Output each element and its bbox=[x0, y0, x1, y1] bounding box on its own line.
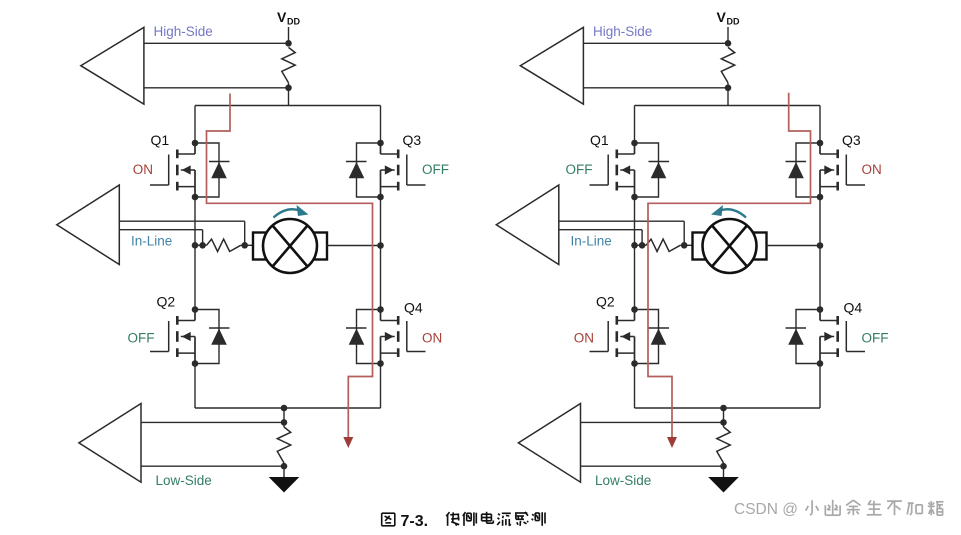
label High-Side (left) bbox=[154, 24, 213, 39]
ground (right) bbox=[708, 477, 739, 493]
svg-text:In-Line: In-Line bbox=[571, 234, 612, 249]
rotation direction arrow for M (left) bbox=[274, 205, 309, 218]
wire bottom rail (right) bbox=[635, 407, 821, 409]
ground (left) bbox=[269, 477, 300, 493]
node Q2 (right) source bbox=[631, 360, 638, 367]
node Q2 (left) drain bbox=[192, 306, 199, 313]
node shunt sense left (left) bbox=[199, 242, 206, 249]
wire resistor to rail (left) bbox=[288, 83, 290, 106]
svg-text:High-Side: High-Side bbox=[154, 24, 213, 39]
node Q1 (right) drain bbox=[631, 140, 638, 147]
node Q3 (right) source bbox=[817, 194, 824, 201]
resistor R_highside (right) bbox=[721, 47, 734, 82]
transistor Q2 (left) (N-MOSFET with body diode) bbox=[150, 310, 230, 364]
node Q3 (left) source bbox=[377, 194, 384, 201]
wire shunt to motor (left) bbox=[241, 244, 253, 246]
label High-Side (right) bbox=[593, 24, 652, 39]
rotation direction arrow for M (right) bbox=[711, 205, 746, 218]
node sense bottom (left) bbox=[281, 463, 288, 470]
op-amp Low-Side (left) current-sense amplifier bbox=[79, 404, 141, 483]
svg-text:Q2: Q2 bbox=[157, 294, 176, 310]
wire top rail (right) bbox=[635, 105, 821, 107]
wire motor to right leg (left) bbox=[327, 245, 381, 247]
wire bottom rail (left) bbox=[195, 407, 381, 409]
label Q4 (left) bbox=[404, 300, 423, 316]
node sense bottom (right) bbox=[720, 463, 727, 470]
motor M (right) (DC motor symbol) bbox=[693, 219, 767, 273]
node bottom rail center (left) bbox=[281, 405, 288, 412]
transistor Q1 (right) (N-MOSFET with body diode) bbox=[590, 143, 670, 197]
svg-text:Q4: Q4 bbox=[404, 300, 423, 316]
wire current path (red) (right) bbox=[648, 93, 811, 448]
wire in-line amp top input (right) bbox=[559, 221, 684, 245]
node sense top (left) bbox=[281, 419, 288, 426]
label In-Line (right) bbox=[571, 234, 612, 249]
net V_DD label (right) bbox=[717, 9, 740, 27]
label Q1 (right) bbox=[590, 132, 609, 148]
wire top rail (left) bbox=[195, 105, 381, 107]
label Q1 state (left) bbox=[133, 162, 153, 177]
transistor Q4 (left) (N-MOSFET with body diode) bbox=[346, 310, 426, 364]
label Low-Side (right) bbox=[595, 473, 651, 488]
wire low-side amp bottom input (right) bbox=[581, 465, 724, 467]
transistor Q1 (left) (N-MOSFET with body diode) bbox=[150, 143, 230, 197]
wire rail to sense resistor (right) bbox=[723, 408, 725, 427]
label Q4 (right) bbox=[844, 300, 863, 316]
label Q4 state (left) bbox=[422, 331, 442, 346]
node V_DD bottom (right) bbox=[725, 85, 732, 92]
node V_DD top (right) bbox=[725, 40, 732, 47]
node Q2 (right) drain bbox=[631, 306, 638, 313]
label Q3 (left) bbox=[403, 132, 422, 148]
wire right leg (left) bbox=[380, 106, 382, 409]
node bottom rail center (right) bbox=[720, 405, 727, 412]
transistor Q3 (right) (N-MOSFET with body diode) bbox=[786, 143, 866, 197]
node Q1 (left) drain bbox=[192, 140, 199, 147]
op-amp In-Line (right) current-sense amplifier bbox=[496, 185, 559, 265]
node sense top (right) bbox=[720, 419, 727, 426]
transistor Q2 (right) (N-MOSFET with body diode) bbox=[590, 310, 670, 364]
svg-text:ON: ON bbox=[862, 162, 882, 177]
node Q4 (left) drain bbox=[377, 306, 384, 313]
wire in-line amp bottom input (right) bbox=[559, 230, 642, 246]
label In-Line (left) bbox=[131, 234, 172, 249]
svg-text:ON: ON bbox=[422, 331, 442, 346]
svg-text:ON: ON bbox=[133, 162, 153, 177]
wire low-side amp bottom input (left) bbox=[141, 465, 284, 467]
wire sense resistor to ground (right) bbox=[723, 463, 725, 478]
resistor R_lowside (right) bbox=[717, 427, 730, 463]
svg-text:V: V bbox=[717, 9, 727, 25]
op-amp High-Side (left) current-sense amplifier bbox=[81, 27, 144, 104]
wire low-side amp top input (left) bbox=[141, 421, 284, 423]
transistor Q4 (right) (N-MOSFET with body diode) bbox=[786, 310, 866, 364]
wire high-side amp top input (left) bbox=[144, 42, 289, 44]
svg-text:High-Side: High-Side bbox=[593, 24, 652, 39]
node Q3 (right) drain bbox=[817, 140, 824, 147]
wire current path (red) (left) bbox=[207, 94, 373, 449]
label Q2 state (right) bbox=[574, 331, 594, 346]
wire right leg (right) bbox=[819, 106, 821, 409]
svg-text:DD: DD bbox=[727, 17, 740, 27]
resistor R_shunt (left) bbox=[207, 239, 241, 251]
svg-text:Q4: Q4 bbox=[844, 300, 863, 316]
wire low-side amp top input (right) bbox=[581, 421, 724, 423]
node Q2 (left) source bbox=[192, 360, 199, 367]
svg-text:OFF: OFF bbox=[566, 162, 593, 177]
node shunt sense right (left) bbox=[241, 242, 248, 249]
node V_DD top (left) bbox=[285, 40, 292, 47]
svg-text:Q1: Q1 bbox=[590, 132, 609, 148]
wire leg to shunt (right) bbox=[635, 244, 647, 246]
wire in-line amp top input (left) bbox=[119, 221, 244, 245]
resistor R_lowside (left) bbox=[277, 427, 290, 463]
svg-text:V: V bbox=[277, 9, 287, 25]
svg-text:In-Line: In-Line bbox=[131, 234, 172, 249]
label Q2 (left) bbox=[157, 294, 176, 310]
svg-text:OFF: OFF bbox=[862, 331, 889, 346]
wire high-side amp bottom input (left) bbox=[144, 87, 289, 89]
op-amp High-Side (right) current-sense amplifier bbox=[520, 27, 583, 104]
svg-text:OFF: OFF bbox=[128, 331, 155, 346]
wire high-side amp top input (right) bbox=[583, 42, 728, 44]
label Q3 state (right) bbox=[862, 162, 882, 177]
watermark CSDN bbox=[734, 500, 943, 518]
wire sense resistor to ground (left) bbox=[283, 463, 285, 478]
motor M (left) (DC motor symbol) bbox=[253, 219, 327, 273]
svg-text:DD: DD bbox=[287, 17, 300, 27]
node shunt sense right (right) bbox=[681, 242, 688, 249]
wire V_DD lead (right) bbox=[727, 27, 729, 43]
node shunt left leg (right) bbox=[631, 242, 638, 249]
node Q4 (right) source bbox=[817, 360, 824, 367]
node Q4 (left) source bbox=[377, 360, 384, 367]
label Low-Side (left) bbox=[156, 473, 212, 488]
svg-text:OFF: OFF bbox=[422, 162, 449, 177]
node Q1 (right) source bbox=[631, 194, 638, 201]
net V_DD label (left) bbox=[277, 9, 300, 27]
wire V_DD lead (left) bbox=[288, 27, 290, 43]
svg-text:ON: ON bbox=[574, 331, 594, 346]
node motor right (left) bbox=[377, 242, 384, 249]
wire leg to shunt (left) bbox=[195, 244, 207, 246]
node V_DD bottom (left) bbox=[285, 85, 292, 92]
op-amp In-Line (left) current-sense amplifier bbox=[57, 185, 120, 265]
svg-text:Low-Side: Low-Side bbox=[156, 473, 212, 488]
label Q1 state (right) bbox=[566, 162, 593, 177]
node shunt left leg (left) bbox=[192, 242, 199, 249]
wire high-side amp bottom input (right) bbox=[583, 87, 728, 89]
caption: figure 7-3 low-side current sensing bbox=[382, 512, 545, 530]
label Q3 state (left) bbox=[422, 162, 449, 177]
wire shunt to motor (right) bbox=[680, 244, 692, 246]
wire in-line amp bottom input (left) bbox=[119, 230, 202, 246]
svg-text:Q3: Q3 bbox=[842, 132, 861, 148]
label Q2 state (left) bbox=[128, 331, 155, 346]
label Q2 (right) bbox=[596, 294, 615, 310]
resistor R_shunt (right) bbox=[646, 239, 680, 251]
wire left leg (right) bbox=[634, 106, 636, 409]
wire resistor to rail (right) bbox=[727, 83, 729, 106]
resistor R_highside (left) bbox=[282, 47, 295, 82]
node motor right (right) bbox=[817, 242, 824, 249]
svg-text:7-3.: 7-3. bbox=[401, 513, 429, 530]
label Q3 (right) bbox=[842, 132, 861, 148]
svg-text:CSDN @: CSDN @ bbox=[734, 501, 798, 518]
transistor Q3 (left) (N-MOSFET with body diode) bbox=[346, 143, 426, 197]
node Q1 (left) source bbox=[192, 194, 199, 201]
label Q4 state (right) bbox=[862, 331, 889, 346]
svg-text:Q1: Q1 bbox=[151, 132, 170, 148]
op-amp Low-Side (right) current-sense amplifier bbox=[518, 404, 580, 483]
node Q4 (right) drain bbox=[817, 306, 824, 313]
wire left leg (left) bbox=[194, 106, 196, 409]
wire rail to sense resistor (left) bbox=[283, 408, 285, 427]
label Q1 (left) bbox=[151, 132, 170, 148]
node shunt sense left (right) bbox=[639, 242, 646, 249]
node Q3 (left) drain bbox=[377, 140, 384, 147]
svg-text:Q2: Q2 bbox=[596, 294, 615, 310]
svg-text:Q3: Q3 bbox=[403, 132, 422, 148]
wire motor to right leg (right) bbox=[767, 245, 821, 247]
svg-text:Low-Side: Low-Side bbox=[595, 473, 651, 488]
